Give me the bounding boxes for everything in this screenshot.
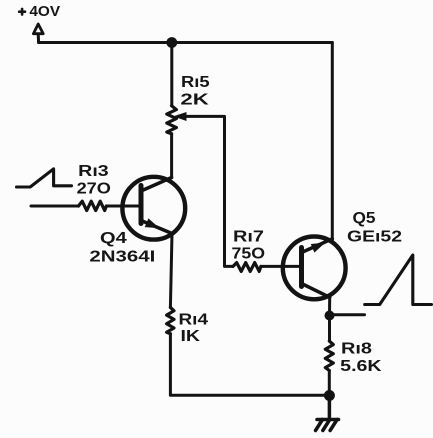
waveform: input sawtooth: [17, 169, 72, 187]
node: junction of +40V rail and R15: [166, 37, 177, 48]
wire: input to R13: [31, 205, 79, 208]
wiper arrow of R15 tap: [173, 112, 186, 121]
node: output junction: [325, 311, 335, 321]
wire: R15 bottom to Q4 collector: [170, 134, 173, 178]
svg-text:Rı5: Rı5: [181, 74, 210, 91]
svg-text:Rı7: Rı7: [233, 229, 264, 246]
svg-text:5.6K: 5.6K: [340, 358, 382, 375]
wire: R13 to Q4 base: [106, 205, 141, 208]
Q5 upper lead (to +40V): [302, 239, 333, 253]
wire: top rail: [39, 41, 333, 44]
resistor R13 270 (horizontal zigzag): [79, 201, 107, 210]
Q4 emitter arrow: [145, 218, 160, 228]
wire: top rail right drop to Q5 collector: [331, 43, 334, 241]
Q4 collector lead: [141, 178, 172, 192]
transistor Q4 circle: [122, 177, 185, 240]
wire: R17 to Q5 base: [261, 265, 301, 268]
svg-text:Rı8: Rı8: [341, 341, 372, 358]
wire: R18 to ground node: [328, 371, 331, 396]
svg-text:2N364I: 2N364I: [89, 249, 155, 266]
svg-text:Q5: Q5: [353, 210, 376, 227]
wire: wiper tap to R17: [185, 116, 233, 266]
Q5 base bar: [299, 248, 304, 287]
wire: Q4 emitter down to R14: [170, 234, 172, 308]
wire: R14 to bottom rail: [170, 334, 329, 395]
ground symbol: [328, 396, 332, 420]
+40V supply arrow: [33, 24, 43, 34]
resistor R15 2K (vertical zigzag): [167, 106, 177, 134]
svg-text:Q4: Q4: [100, 230, 127, 247]
node: ground junction: [324, 390, 335, 401]
svg-text:4OV: 4OV: [29, 4, 60, 20]
waveform: output sawtooth: [365, 255, 432, 305]
svg-text:2K: 2K: [180, 92, 209, 109]
svg-text:75O: 75O: [232, 246, 266, 263]
Q4 emitter lead: [141, 221, 172, 234]
resistor R18 5.6K (vertical zigzag): [325, 341, 333, 371]
transistor Q5 circle: [283, 237, 346, 300]
resistor R17 750 (horizontal zigzag): [233, 263, 261, 272]
Q5 upper lead arrow: [311, 243, 325, 253]
svg-text:IK: IK: [181, 328, 201, 345]
Q5 lower lead: [302, 284, 330, 298]
svg-text:GEı52: GEı52: [347, 229, 402, 246]
wire: arrow stem: [37, 34, 40, 42]
svg-text:Rı4: Rı4: [179, 312, 209, 329]
label +40V plus sign: [19, 9, 25, 15]
wire: rail to R15 top: [170, 43, 173, 106]
Q4 base bar: [139, 186, 144, 224]
wire: node to R18: [328, 316, 331, 342]
resistor R14 1K (vertical zigzag): [167, 307, 174, 333]
svg-text:27O: 27O: [77, 181, 111, 198]
svg-text:Rı3: Rı3: [78, 163, 109, 180]
wire: Q5 lower lead to output node: [328, 297, 331, 315]
wire: output stub: [330, 313, 365, 316]
